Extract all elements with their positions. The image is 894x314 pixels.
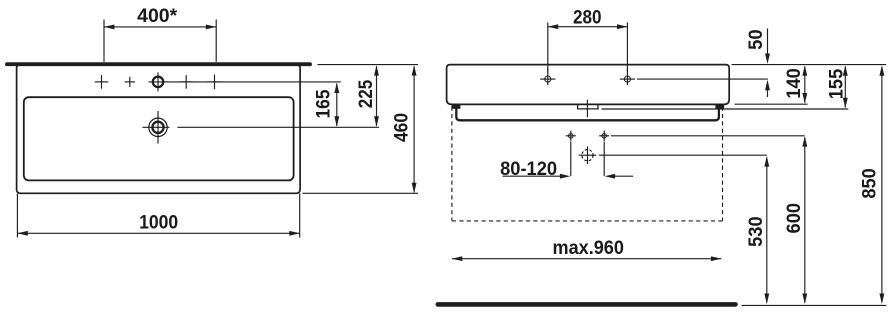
- svg-text:155: 155: [827, 68, 848, 99]
- faucet height extension line: [637, 78, 768, 80]
- installation zone dashed line bottom: [452, 220, 723, 222]
- svg-text:max.960: max.960: [553, 238, 624, 259]
- dimension 460 line with arrows (plan depth): [413, 66, 415, 192]
- washbasin plan view: wall mounting bar: [7, 62, 310, 66]
- dimension 165 line with arrows (faucet row to drain): [336, 84, 338, 126]
- svg-text:460: 460: [392, 113, 413, 142]
- faucet hole mark right (tap position cross): [179, 81, 193, 83]
- dimension 1000 extension line left: [16, 194, 18, 238]
- dimension 80-120 left line with right-pointing arrow: [503, 175, 563, 177]
- installation zone dashed line left: [451, 107, 453, 221]
- svg-text:225: 225: [356, 79, 377, 108]
- svg-text:600: 600: [784, 203, 805, 234]
- dimension 50 lower up arrow with stem: [765, 80, 770, 90]
- svg-text:140: 140: [784, 68, 805, 99]
- faucet row centreline extending right: [163, 81, 340, 83]
- dimension 530 line with arrows (wall drain height): [766, 158, 768, 303]
- dimension 600 line with arrows (bolt height): [804, 138, 806, 303]
- svg-text:280: 280: [573, 7, 602, 28]
- svg-text:530: 530: [746, 216, 767, 247]
- dimension 400* extension line left: [103, 20, 105, 62]
- front view vertical centreline through drain notch: [586, 100, 588, 118]
- svg-text:1000: 1000: [139, 213, 178, 234]
- dimension 280 line with arrows: [548, 26, 628, 28]
- dimension 80-120 right line with left-pointing arrow: [605, 174, 615, 179]
- notch bottom extension line: [602, 108, 849, 110]
- mounting bolt right (small crosshair): [602, 134, 607, 139]
- drain outlet plan symbol (two concentric circles with crosshair): [149, 118, 167, 136]
- dimension 50 upper line and down arrow: [767, 29, 769, 56]
- floor line (bold): [438, 302, 736, 307]
- towel rail mounting tab right (filled): [715, 104, 724, 108]
- bolt stem right: [603, 142, 605, 177]
- dimension 1000 extension line right: [299, 194, 301, 238]
- dimension 1000 line with arrows (plan width): [17, 232, 299, 234]
- wall drain height extension line to right: [599, 154, 767, 156]
- faucet hole mark far-right (tap position cross): [207, 81, 222, 83]
- floor baseline extension (thin): [742, 304, 887, 306]
- plan top edge extension line (right of bar): [318, 64, 419, 66]
- svg-text:400*: 400*: [137, 6, 178, 27]
- washbasin front view outline: [447, 65, 730, 105]
- washbasin plan view: inner bowl rounded rectangle: [24, 97, 294, 180]
- drain notch below basin centre: [578, 104, 598, 109]
- bolt height extension line to right: [611, 135, 805, 137]
- dimension 155 line with arrows: [844, 67, 846, 108]
- towel rail mounting tab left (filled): [452, 104, 461, 108]
- svg-text:80-120: 80-120: [500, 159, 557, 180]
- faucet hole centre (bold circle with crosshair): [153, 77, 163, 87]
- dimension 280 extension line right: [626, 23, 628, 72]
- faucet hole mark far-left (tap position cross): [95, 81, 109, 83]
- dimension 400* line with arrows: [104, 26, 216, 28]
- bolt stem left: [570, 142, 572, 177]
- svg-text:165: 165: [313, 89, 334, 118]
- basin top edge extension line to far right: [732, 64, 887, 66]
- faucet hole mark left (tap position cross): [125, 81, 135, 83]
- drain centreline extending right: [177, 126, 379, 128]
- mounting bolt left (small crosshair): [569, 134, 574, 139]
- front view faucet hole right (dashed crosshair): [624, 76, 630, 82]
- svg-text:50: 50: [746, 29, 767, 50]
- plan bottom edge extension line: [303, 192, 419, 194]
- wall drain position (dashed circle with crosshair): [582, 150, 593, 161]
- washbasin plan view: outer rim rectangle: [17, 65, 301, 194]
- towel rail bold U outline: [456, 107, 719, 120]
- dimension 225 line with arrows (top edge to drain): [376, 66, 378, 126]
- dimension 400* extension line right: [215, 20, 217, 62]
- svg-text:850: 850: [859, 168, 880, 199]
- front view faucet hole left (dashed crosshair): [545, 76, 551, 82]
- dimension 140 line with arrows: [804, 67, 806, 103]
- dimension 850 line with arrows (rim height): [881, 67, 883, 303]
- installation zone dashed line right: [722, 107, 724, 221]
- dimension 280 extension line left: [547, 23, 549, 72]
- basin bottom extension line: [735, 103, 808, 105]
- dimension max.960 line with arrows: [452, 258, 721, 260]
